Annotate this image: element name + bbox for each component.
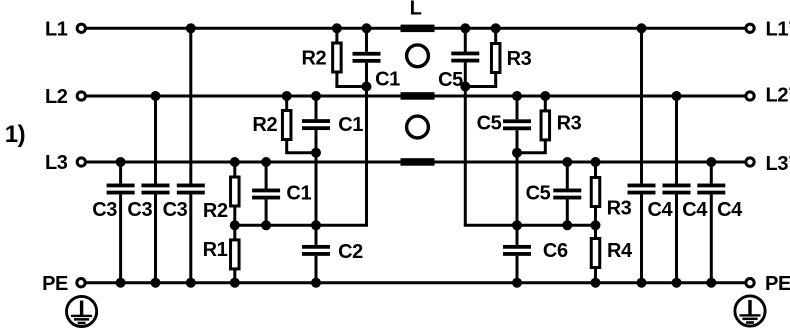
node R2.3-L3 — [230, 157, 240, 167]
capacitor C4 (second) — [663, 184, 691, 195]
svg-text:R1: R1 — [203, 239, 228, 261]
wire right bus — [464, 224, 597, 227]
wire R2.3 top — [233, 162, 236, 177]
node C3c-L1 — [186, 23, 196, 33]
node C5.2-L2 — [512, 91, 522, 101]
node bus-R1 — [230, 220, 240, 230]
resistor R3 (L1) — [491, 44, 500, 73]
inductor L winding 2 — [401, 92, 435, 100]
capacitor C5 (L3) — [553, 189, 581, 200]
svg-text:C1: C1 — [375, 68, 400, 90]
svg-text:C1: C1 — [338, 114, 363, 136]
wire R3.1 top — [494, 28, 497, 43]
svg-text:C4: C4 — [648, 199, 674, 221]
wire C1.1 down to bus — [365, 63, 368, 226]
svg-text:C3: C3 — [92, 199, 117, 221]
node bus-C5.3 — [562, 220, 572, 230]
wire C3b bottom — [154, 195, 157, 283]
wire C3a bottom — [119, 195, 122, 283]
terminal PE left — [77, 279, 85, 287]
svg-text:R3: R3 — [557, 113, 582, 135]
node C4b-PE — [672, 278, 682, 288]
wire C4c bottom — [710, 195, 713, 283]
svg-text:PE: PE — [42, 273, 68, 295]
wire C2 top — [315, 225, 318, 245]
terminal L1' — [746, 24, 754, 32]
svg-text:R3: R3 — [507, 48, 532, 70]
svg-text:1): 1) — [5, 121, 26, 148]
wire C2 bottom — [315, 256, 318, 283]
wire C3a top — [119, 162, 122, 184]
node C5.1-R3.1 — [460, 82, 470, 92]
wire C1.2 down to bus — [315, 130, 318, 225]
resistor R1 — [231, 240, 240, 269]
wire C5.3 bottom — [566, 200, 569, 226]
wire R2.3 bottom — [233, 206, 236, 225]
node C3a-L3 — [116, 157, 126, 167]
svg-text:R2: R2 — [302, 48, 327, 70]
capacitor C3 (first) — [107, 184, 135, 195]
svg-text:C2: C2 — [338, 241, 363, 263]
terminal L1 — [77, 24, 85, 32]
node C5.1-L1 — [460, 23, 470, 33]
wire R3.1-C5.1 link — [465, 85, 497, 88]
svg-text:C4: C4 — [682, 199, 708, 221]
node C4a-L1 — [637, 23, 647, 33]
wire L3 rail — [86, 161, 746, 164]
wire R1 top — [233, 225, 236, 240]
node R3.2-L2 — [540, 91, 550, 101]
wire R2.1 top — [335, 28, 338, 43]
svg-text:R3: R3 — [607, 198, 632, 220]
wire C1.2 top — [315, 96, 318, 119]
node R4-PE — [591, 278, 601, 288]
wire C1.1 top — [365, 28, 368, 52]
node C4a-PE — [637, 278, 647, 288]
wire C1.3 bottom — [265, 200, 268, 226]
node R2.1-L1 — [332, 23, 342, 33]
ground symbol left (protective earth) — [67, 296, 97, 326]
terminal L3 — [77, 158, 85, 166]
terminal L3' — [746, 158, 754, 166]
node C1.2-L2 — [311, 91, 321, 101]
wire R2.1 bottom — [335, 72, 338, 87]
wire R2.2 top — [285, 96, 288, 111]
inductor L core circle upper — [407, 45, 429, 67]
inductor L winding 1 — [401, 25, 435, 32]
wire C4c top — [710, 162, 713, 184]
node C4b-L2 — [672, 91, 682, 101]
capacitor C2 — [302, 245, 330, 256]
wire C4b top — [675, 96, 678, 184]
capacitor C1 (L3) — [252, 189, 280, 200]
wire R3.2 bottom — [544, 140, 547, 153]
svg-text:L2: L2 — [45, 86, 68, 108]
capacitor C4 (first) — [628, 184, 656, 195]
node R3.3-L3 — [591, 157, 601, 167]
node bus-C2 — [311, 220, 321, 230]
wire R2.2 bottom — [285, 140, 288, 153]
svg-text:L1: L1 — [45, 19, 68, 41]
capacitor C4 (third) — [697, 184, 725, 195]
wire R4 top — [594, 225, 597, 238]
inductor L core circle lower — [407, 116, 429, 138]
svg-text:L1’: L1’ — [766, 19, 790, 41]
inductor L winding 3 — [401, 158, 435, 166]
wire R1 bottom — [233, 269, 236, 283]
wire C3b top — [154, 96, 157, 184]
capacitor C1 (L1) — [353, 52, 381, 63]
svg-text:C6: C6 — [543, 240, 568, 262]
node bus-C6 — [512, 220, 522, 230]
node C3b-PE — [151, 278, 161, 288]
resistor R2 (L3) — [231, 177, 240, 206]
capacitor C5 (L1) — [451, 52, 479, 63]
node C5.3-L3 — [562, 157, 572, 167]
wire R2.2-C1.2 link — [285, 151, 316, 154]
capacitor C3 (third) — [177, 184, 205, 195]
node C2-PE — [311, 278, 321, 288]
wire R3.2 top — [544, 96, 547, 111]
node R2.2-L2 — [282, 91, 292, 101]
wire R3.1 bottom — [494, 73, 497, 87]
svg-text:C5: C5 — [477, 113, 502, 135]
node bus-C1.3 — [261, 220, 271, 230]
wire R3.3 top — [594, 162, 597, 178]
node C4c-PE — [706, 278, 716, 288]
capacitor C5 (L2) — [503, 119, 531, 130]
node R2.1-C1.1 — [362, 82, 372, 92]
node bus-R4 — [591, 220, 601, 230]
node C6-PE — [512, 278, 522, 288]
capacitor C6 — [503, 245, 531, 256]
node R1-PE — [230, 278, 240, 288]
wire C4a bottom — [640, 195, 643, 283]
node C3c-PE — [186, 278, 196, 288]
node R2.2-C1.2 — [311, 148, 321, 158]
wire C5.2 down to bus — [516, 130, 519, 225]
node C1.3-L3 — [261, 157, 271, 167]
wire L2 rail — [86, 95, 746, 98]
wire C5.1 down to bus — [464, 63, 467, 226]
wire C3c top — [189, 28, 192, 183]
wire C3c bottom — [189, 195, 192, 283]
svg-text:L3: L3 — [45, 152, 68, 174]
node R3.1-L1 — [491, 23, 501, 33]
terminal PE right — [746, 279, 754, 287]
wire C6 bottom — [516, 256, 519, 283]
wire C1.3 top — [265, 162, 268, 189]
wire R2.1-C1.1 link — [335, 85, 366, 88]
svg-text:C3: C3 — [163, 199, 188, 221]
svg-text:L3’: L3’ — [766, 153, 790, 175]
svg-text:C1: C1 — [286, 183, 311, 205]
wire C6 top — [516, 225, 519, 245]
node C3b-L2 — [151, 91, 161, 101]
capacitor C1 (L2) — [302, 119, 330, 130]
wire R3.2-C5.2 link — [517, 151, 547, 154]
node C4c-L3 — [706, 157, 716, 167]
svg-text:C3: C3 — [127, 199, 152, 221]
node C3a-PE — [116, 278, 126, 288]
svg-text:C5: C5 — [438, 69, 463, 91]
svg-text:R4: R4 — [607, 240, 633, 262]
wire left bus — [233, 224, 368, 227]
wire R3.3 bottom — [594, 207, 597, 226]
wire C5.1 top — [464, 28, 467, 51]
wire R4 bottom — [594, 268, 597, 283]
terminal L2' — [746, 92, 754, 100]
wire C4b bottom — [675, 195, 678, 283]
capacitor C3 (second) — [142, 184, 170, 195]
svg-text:R2: R2 — [203, 200, 228, 222]
terminal L2 — [77, 92, 85, 100]
resistor R2 (L1) — [333, 43, 342, 72]
svg-text:C4: C4 — [717, 199, 743, 221]
ground symbol right (protective earth) — [735, 296, 765, 326]
wire C5.2 top — [516, 96, 519, 119]
svg-text:C5: C5 — [526, 183, 551, 205]
svg-text:R2: R2 — [252, 114, 277, 136]
node C1.1-L1 — [362, 23, 372, 33]
resistor R3 (L2) — [541, 111, 550, 140]
svg-text:L2’: L2’ — [766, 85, 790, 107]
resistor R2 (L2) — [282, 111, 291, 140]
resistor R3 (L3) — [591, 178, 600, 207]
svg-text:L: L — [410, 0, 422, 20]
wire C5.3 top — [566, 162, 569, 189]
wire L1 rail — [86, 27, 746, 30]
wire PE rail — [85, 281, 745, 284]
node C5.2-R3.2 — [512, 148, 522, 158]
svg-text:PE: PE — [765, 273, 790, 295]
resistor R4 — [591, 239, 600, 268]
wire C4a top — [640, 28, 643, 183]
